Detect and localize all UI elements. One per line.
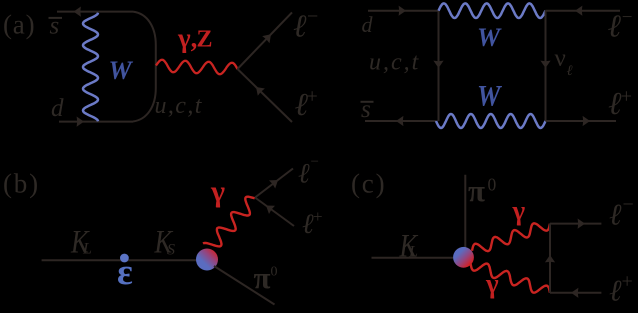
svg-text:+: + — [307, 86, 318, 108]
svg-text:−: − — [623, 194, 634, 216]
svg-text:ℓ: ℓ — [609, 199, 622, 232]
epsilon mixing vertex dot (b) — [120, 254, 129, 263]
quark label s-bar (a) — [49, 12, 63, 39]
svg-text:−: − — [307, 6, 318, 28]
lower gamma photon wavy (c) — [471, 264, 551, 293]
svg-text:π: π — [254, 260, 271, 295]
arrow d line right (box) — [399, 6, 406, 16]
wire: lepton minus line (box) — [546, 10, 621, 12]
arrow lepton minus (a) outgoing — [262, 34, 271, 43]
svg-text:L: L — [408, 244, 418, 261]
wire: lepton plus line (b) — [255, 198, 294, 227]
svg-text:ℓ: ℓ — [609, 275, 622, 308]
gamma/Z photon propagator wavy red — [156, 60, 238, 74]
svg-text:d: d — [51, 95, 64, 122]
svg-text:γ: γ — [485, 269, 499, 299]
wire: d external line (a) — [59, 121, 133, 123]
arrow left vertical down (box) — [433, 61, 443, 68]
arrow lepton minus (b) — [269, 180, 278, 189]
svg-text:γ: γ — [512, 196, 526, 226]
svg-text:W: W — [109, 56, 134, 85]
svg-text:s: s — [50, 12, 60, 39]
svg-text:0: 0 — [488, 175, 497, 195]
wire: lepton plus line (box) — [546, 120, 617, 122]
svg-text:(b): (b) — [3, 169, 40, 199]
KL vertex blob (c) — [453, 247, 474, 268]
svg-text:(a): (a) — [3, 10, 35, 40]
wire: s-bar external line (a) — [57, 11, 133, 13]
arrow lepton plus (b) — [266, 206, 275, 215]
svg-text:+: + — [313, 207, 323, 226]
wire: quark loop arc u,c,t (a) — [133, 12, 156, 122]
arrow internal line up (c) — [545, 255, 555, 262]
svg-text:ε: ε — [117, 252, 133, 293]
wire: K_L line (c) — [372, 257, 457, 259]
arrow lepton minus left (box) — [575, 6, 582, 16]
svg-text:ℓ: ℓ — [567, 63, 573, 79]
W boson propagator wavy (a) — [83, 13, 98, 122]
arrow lepton plus left (c) — [571, 288, 578, 298]
svg-text:W: W — [477, 23, 502, 52]
upper gamma photon wavy (c) — [472, 223, 550, 251]
svg-text:ℓ: ℓ — [298, 159, 310, 190]
svg-text:u,c,t: u,c,t — [369, 50, 420, 76]
wire: K_L / K_S line (b) — [42, 259, 199, 261]
svg-text:S: S — [167, 242, 175, 259]
wire: internal lepton vertical line (c) — [549, 224, 551, 293]
svg-text:Z: Z — [197, 27, 213, 53]
W boson propagator bottom (box) — [436, 114, 546, 128]
svg-text:γ: γ — [210, 175, 225, 208]
wire: pi0 line vertical (c) — [464, 175, 466, 249]
wire: pi0 line (b) — [214, 266, 275, 305]
svg-text:d: d — [362, 12, 374, 37]
arrow on d line pointing right — [77, 117, 84, 127]
svg-text:+: + — [621, 86, 632, 108]
wire: lepton plus line (a) — [238, 69, 293, 122]
svg-text:(c): (c) — [351, 169, 386, 199]
wire: s-bar line (box) — [365, 120, 436, 122]
svg-text:ℓ: ℓ — [608, 8, 622, 44]
arrow right vertical down (box) — [540, 61, 550, 68]
wire: lepton plus line (c) — [550, 292, 601, 294]
wire: left vertical quark line (box) — [438, 11, 440, 121]
wire: lepton minus line (a) — [238, 12, 293, 69]
svg-text:W: W — [477, 80, 502, 113]
arrow on s-bar line pointing left — [74, 7, 81, 17]
svg-text:L: L — [82, 241, 92, 258]
svg-text:u,c,t: u,c,t — [155, 93, 203, 119]
svg-text:s: s — [361, 96, 371, 123]
svg-text:γ,: γ, — [177, 23, 197, 53]
arrow s-bar left (box) — [396, 116, 403, 126]
svg-text:−: − — [622, 7, 633, 28]
svg-text:π: π — [468, 173, 485, 208]
svg-text:ℓ: ℓ — [293, 8, 307, 44]
gamma photon wavy (b) — [203, 197, 255, 247]
svg-text:−: − — [311, 154, 319, 170]
KS to pi0 vertex blob (b) — [196, 249, 218, 271]
arrow lepton plus right (box) — [583, 116, 590, 126]
wire: right vertical neutrino line (box) — [545, 11, 547, 121]
quark label s-bar (box) — [361, 96, 374, 123]
W boson propagator top (box) — [439, 3, 546, 18]
wire: d line (box) — [368, 10, 439, 12]
wire: lepton minus line (b) — [255, 169, 293, 198]
arrow lepton minus right (c) — [578, 219, 585, 229]
svg-text:ν: ν — [555, 45, 566, 72]
arrow lepton plus (a) incoming — [256, 87, 265, 96]
wire: lepton minus line (c) — [550, 223, 601, 225]
svg-text:+: + — [622, 271, 633, 293]
svg-text:0: 0 — [271, 265, 278, 280]
